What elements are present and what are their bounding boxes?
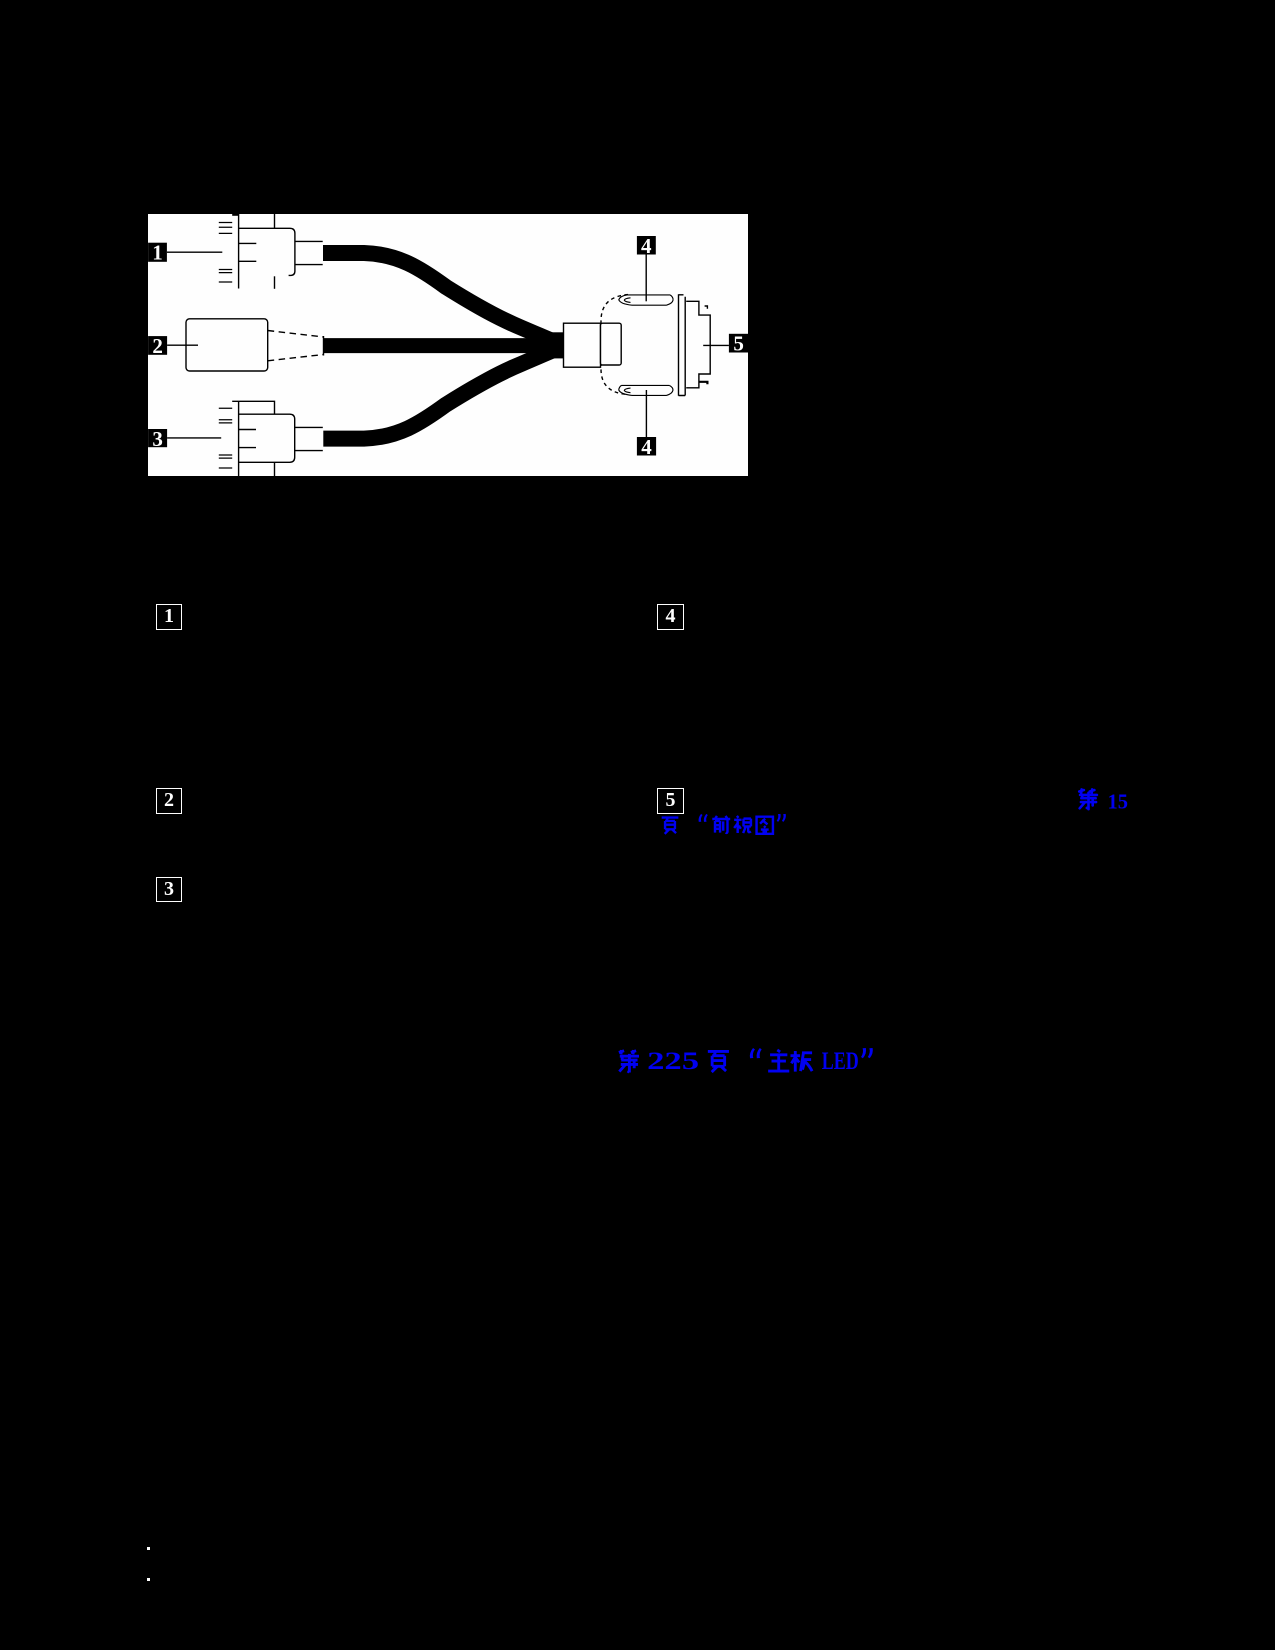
- connector 1 top rect: [274, 214, 276, 228]
- hanzi qian: [712, 816, 730, 833]
- wire: merged trunk: [548, 332, 564, 358]
- legend callout 5: [657, 788, 684, 814]
- wire: cable 1: [323, 253, 561, 345]
- connector 1 inner pins: [239, 243, 256, 261]
- hanzi shi: [734, 816, 751, 833]
- connector 3 flange: [238, 401, 240, 476]
- connector 1 bottom stub: [274, 276, 276, 289]
- connector 2 body: [186, 319, 268, 371]
- hanzi tu: [757, 817, 773, 834]
- close quote: [777, 814, 786, 822]
- thumbscrew top: [619, 295, 673, 305]
- D-sub notch top: [705, 306, 708, 309]
- hood rect A: [564, 323, 601, 367]
- hanzi di: [619, 1050, 639, 1073]
- legend callout 2: [156, 788, 182, 814]
- connector 1 pins: [219, 223, 232, 283]
- open quote: [750, 1048, 762, 1058]
- hanzi zhu: [768, 1050, 789, 1071]
- bullet 2: [147, 1578, 150, 1581]
- node 4 bottom: [637, 437, 656, 456]
- connector 3 pins: [219, 408, 232, 468]
- callout line 1: [167, 251, 222, 253]
- callout line 2: [167, 344, 198, 346]
- face plate band: [679, 294, 686, 396]
- svg-text:225: 225: [647, 1048, 699, 1075]
- connector 2 dashed taper: [268, 331, 324, 338]
- close quote: [861, 1048, 873, 1058]
- figure: breakout cable diagram: [148, 214, 748, 476]
- node 4 top: [637, 236, 656, 255]
- node 2: [148, 336, 167, 355]
- legend callout 3: [156, 877, 182, 902]
- figure callout boxes: [148, 234, 748, 459]
- open quote: [699, 814, 708, 822]
- connector 3 bottom rect: [274, 462, 276, 476]
- hanzi ye: [662, 818, 679, 834]
- svg-text:4: 4: [641, 234, 652, 258]
- legend callout 4: [657, 604, 684, 630]
- connector 3 top rect: [232, 401, 274, 414]
- wire: cable 2: [324, 338, 558, 353]
- hanzi ban: [790, 1051, 812, 1072]
- connector 1 flange: [238, 214, 240, 289]
- svg-text:2: 2: [152, 334, 163, 358]
- connector 1 top clip notch: [232, 214, 238, 216]
- connector 3 inner pins: [239, 430, 256, 448]
- flange + D-sub: [686, 301, 710, 388]
- shell dashed silhouette: [601, 295, 628, 395]
- D-sub notch bottom: [699, 382, 708, 384]
- node 5: [729, 334, 748, 353]
- wire: cable 3: [323, 347, 561, 439]
- thumbscrew bottom: [619, 385, 673, 395]
- hood rect B: [601, 323, 622, 365]
- svg-text:LED: LED: [822, 1048, 859, 1075]
- connector 1 body: [239, 228, 295, 275]
- connector 3 body: [239, 414, 295, 462]
- svg-text:4: 4: [641, 435, 652, 459]
- callout line 4 bottom: [645, 390, 647, 437]
- connector 1 neck: [295, 241, 323, 264]
- callout line 4 top: [645, 255, 647, 302]
- hanzi di: [1079, 789, 1097, 809]
- blue link line 2: 页 “前视图”: [655, 810, 795, 840]
- hanzi ye: [708, 1051, 729, 1072]
- blue link line 1: 第 15: [1070, 783, 1140, 815]
- svg-text:15: 15: [1108, 790, 1129, 814]
- bullet 1: [147, 1547, 150, 1550]
- connector 3 neck: [295, 427, 323, 450]
- svg-text:1: 1: [152, 241, 163, 265]
- svg-text:3: 3: [152, 427, 163, 451]
- node 1: [148, 243, 167, 262]
- legend callout 1: [156, 604, 182, 630]
- svg-text:5: 5: [733, 332, 744, 356]
- blue link line 3: 第 225 页 “主板 LED”: [610, 1044, 880, 1080]
- node 3: [148, 429, 167, 447]
- callout line 3: [167, 437, 221, 439]
- callout line 5: [703, 344, 729, 346]
